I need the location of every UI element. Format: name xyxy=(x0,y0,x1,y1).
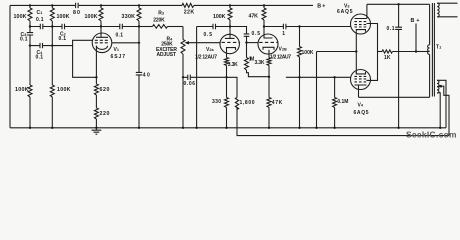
tube V2A plate xyxy=(225,27,235,39)
node junction x183 y77.3 xyxy=(182,76,184,78)
wire xyxy=(263,5,265,26)
tube V4 6AQ5 envelope xyxy=(351,70,371,90)
wire V3 screen lead xyxy=(367,24,378,52)
capacitor 0.5 plate bypass xyxy=(197,24,230,29)
wire xyxy=(226,66,228,78)
node junction x52.3 y26.5 xyxy=(51,25,53,27)
node junction plate V2B xyxy=(263,25,265,27)
tube V1 plate xyxy=(96,27,108,38)
tube V2B cathode xyxy=(263,47,274,50)
svg-text:6AQ5: 6AQ5 xyxy=(354,110,369,116)
svg-text:V4: V4 xyxy=(358,102,364,108)
wire feedback down xyxy=(237,108,449,136)
node junction rail x316.5 xyxy=(315,127,317,129)
svg-text:1M: 1M xyxy=(249,56,255,62)
wire V1 screen to bypass xyxy=(112,42,139,44)
tube V1 cathode xyxy=(96,46,107,50)
svg-text:R3: R3 xyxy=(158,10,164,16)
wire V2B cathode lead xyxy=(268,50,270,58)
capacitor 80 (series in top rail) xyxy=(76,3,79,8)
node junction plate V1 xyxy=(100,25,102,27)
capacitor C3 0.1 xyxy=(27,27,33,46)
wire V4 grid xyxy=(286,76,351,78)
svg-text:0.1: 0.1 xyxy=(59,36,67,42)
ground xyxy=(92,128,102,134)
resistor 100K V3 grid leak xyxy=(299,27,301,47)
capacitor 1 coupling to V3 xyxy=(264,24,300,29)
svg-text:80: 80 xyxy=(73,10,80,16)
node junction rail x96.4 xyxy=(95,127,97,129)
node junction rail x398.6 xyxy=(397,127,399,129)
wire xyxy=(51,97,53,128)
tube V2B plate xyxy=(264,27,273,39)
capacitor 0.5 interstage (vertical) xyxy=(244,34,250,43)
capacitor 40 screen bypass xyxy=(136,72,142,127)
resistor 1K screen feed xyxy=(378,51,383,53)
tube V4 cathode xyxy=(356,72,365,74)
node junction top x264 xyxy=(263,4,265,6)
resistor R3 220K (series y26) xyxy=(139,26,153,28)
svg-text:C1: C1 xyxy=(37,10,43,16)
wire xyxy=(51,5,53,45)
node junction B+ bus xyxy=(415,50,417,52)
svg-text:1,800: 1,800 xyxy=(240,100,255,106)
resistor 100K plate load V2A xyxy=(228,8,232,20)
node junction rail x196.6 xyxy=(195,127,197,129)
node junction rail x269 xyxy=(268,127,270,129)
wire secondary top leads xyxy=(437,3,457,17)
svg-text:22K: 22K xyxy=(184,10,195,16)
svg-text:100K: 100K xyxy=(15,87,29,93)
svg-text:3.3K: 3.3K xyxy=(228,62,238,68)
svg-text:1/2 12AU7: 1/2 12AU7 xyxy=(195,55,217,61)
transformer T1 core xyxy=(432,3,434,97)
node junction V2B grid xyxy=(245,41,247,43)
svg-text:V1: V1 xyxy=(114,47,119,53)
svg-text:3.3K: 3.3K xyxy=(255,60,265,66)
wire left border xyxy=(9,5,11,127)
tube V3 plate xyxy=(355,4,367,18)
resistor 330K xyxy=(137,8,141,21)
node junction x398.6 top xyxy=(397,3,399,5)
resistor 620 xyxy=(95,77,97,84)
node junction plate V2A xyxy=(229,25,231,27)
node V1 cathode junction xyxy=(95,76,97,78)
node junction V4 grid cross xyxy=(298,76,300,78)
node junction rail x139 xyxy=(138,127,140,129)
wire top rail right segment to B+ xyxy=(194,4,313,6)
svg-text:620: 620 xyxy=(100,87,110,93)
wire secondary tap to feedback xyxy=(440,86,449,135)
wire center tap xyxy=(416,51,430,53)
svg-text:6AQ5: 6AQ5 xyxy=(337,9,353,15)
resistor 47K cathode to ground xyxy=(268,77,270,98)
potentiometer R4 250K exciter adjust xyxy=(182,27,184,40)
resistor 3.3K V2A cathode xyxy=(225,58,229,66)
node junction x30 y45.6 xyxy=(29,44,31,46)
resistor 330 xyxy=(226,77,228,97)
svg-text:V2a: V2a xyxy=(206,47,214,53)
wire xyxy=(229,5,231,26)
resistor 220 xyxy=(94,108,98,119)
transformer secondary bottom winding xyxy=(437,80,439,93)
node junction top x101 xyxy=(100,4,102,6)
svg-text:0.1: 0.1 xyxy=(116,32,124,38)
node junction top x230 xyxy=(229,4,231,6)
resistor 100K lower-left 1 xyxy=(28,85,32,97)
node junction x30 y26.5 xyxy=(29,25,31,27)
node junction V4 grid leak xyxy=(333,76,335,78)
wire 1M bottom to cathode node xyxy=(247,70,270,77)
wire secondary bottom lower lead xyxy=(437,93,440,128)
wire feedback branch corner xyxy=(227,77,238,97)
node B+ lead xyxy=(415,24,417,52)
wire V3 plate to transformer xyxy=(367,3,430,5)
node junction screen x139 xyxy=(138,42,140,44)
capacitor C4 0.1 (series y45.6) xyxy=(30,43,52,48)
tube V1 6SJ7 envelope xyxy=(92,33,112,53)
svg-text:47K: 47K xyxy=(249,13,259,19)
wire V1 cathode lead xyxy=(95,46,97,78)
tube V3 cathode xyxy=(356,30,365,32)
svg-text:100K: 100K xyxy=(57,87,71,93)
svg-text:0.1: 0.1 xyxy=(20,37,28,43)
node junction cathode bus xyxy=(355,50,357,52)
tube V3 grid dashes xyxy=(354,22,366,27)
wire cathode ground bus xyxy=(317,52,357,128)
resistor 47K plate load V2B xyxy=(262,8,266,20)
node junction rail x30 xyxy=(29,127,31,129)
tube V4 grid dashes xyxy=(354,76,366,82)
resistor 3.3K V2B cathode xyxy=(267,58,271,66)
svg-text:0.5: 0.5 xyxy=(252,31,261,37)
resistor 0.1M V4 grid leak xyxy=(334,77,336,97)
wire bottom ground rail xyxy=(10,127,446,129)
svg-text:100K: 100K xyxy=(14,14,27,20)
svg-text:1: 1 xyxy=(282,31,285,37)
svg-text:330K: 330K xyxy=(122,14,136,20)
resistor 1800 feedback xyxy=(235,98,238,110)
wire xyxy=(29,97,31,128)
svg-text:100K: 100K xyxy=(302,50,314,56)
wire xyxy=(51,46,53,85)
tube V3 6AQ5 envelope xyxy=(351,14,371,34)
svg-text:1/2 12AU7: 1/2 12AU7 xyxy=(270,55,291,61)
tube V2B envelope xyxy=(258,34,278,54)
svg-text:B+: B+ xyxy=(411,18,420,24)
wire C4 node to V1 corner xyxy=(52,45,72,47)
node junction V2A cathode feedback xyxy=(225,76,227,78)
svg-text:0.06: 0.06 xyxy=(184,81,196,87)
wire xyxy=(95,95,97,108)
wire V3 grid xyxy=(300,26,352,28)
wire V2A cathode lead xyxy=(226,50,228,58)
capacitor 0.1 plate bypass xyxy=(395,4,402,128)
transformer T1 primary xyxy=(429,4,431,45)
capacitor 0.1 coupling (series y26.5) xyxy=(101,24,139,29)
svg-text:47K: 47K xyxy=(272,100,283,106)
wire V4 screen lead xyxy=(367,52,378,81)
resistor 100K lower-left 2 xyxy=(50,85,54,97)
capacitor C2 0.1 (series y26.5) xyxy=(52,24,101,29)
tube V4 plate xyxy=(355,85,367,97)
svg-text:330: 330 xyxy=(212,99,221,105)
node junction top x139 xyxy=(138,4,140,6)
node junction V3 grid xyxy=(298,25,300,27)
tube V2A cathode xyxy=(227,48,236,50)
node junction rail x183 xyxy=(182,127,184,129)
transformer secondary top winding xyxy=(437,3,439,17)
tube V2B grid dashes xyxy=(259,41,278,43)
wire V1 grid input xyxy=(73,40,97,77)
svg-text:1K: 1K xyxy=(384,55,391,61)
capacitor 0.06 xyxy=(183,75,227,80)
wire top rail left segment xyxy=(10,4,75,6)
wire top rail middle segment xyxy=(79,4,182,6)
svg-text:T1: T1 xyxy=(436,44,441,50)
wire plate segment to coupling corner xyxy=(230,27,247,34)
svg-text:0.1: 0.1 xyxy=(387,26,395,32)
svg-text:100K: 100K xyxy=(57,14,70,20)
wiper arrow R4 xyxy=(189,42,221,44)
node junction rail x299.5 xyxy=(298,127,300,129)
wire to V2B grid xyxy=(247,42,259,44)
svg-text:100K: 100K xyxy=(213,14,226,20)
node junction rail x334.6 xyxy=(333,127,335,129)
svg-text:0.5: 0.5 xyxy=(204,32,213,38)
resistor 1M xyxy=(246,43,248,58)
node junction top x52.3 xyxy=(51,4,53,6)
wire secondary bottom top lead xyxy=(437,80,446,128)
wire V4 plate to transformer xyxy=(359,96,430,98)
tube V1 grid dashes xyxy=(95,40,108,43)
node junction x139 y26.5 xyxy=(138,25,140,27)
node junction V2B cathode xyxy=(268,76,270,78)
wire xyxy=(268,66,270,77)
svg-text:6SJ7: 6SJ7 xyxy=(111,54,126,60)
svg-text:0.1M: 0.1M xyxy=(337,99,348,105)
svg-text:220K: 220K xyxy=(153,17,165,23)
wire xyxy=(95,119,97,128)
wire xyxy=(29,5,31,26)
wire shared cathode line V3 V4 xyxy=(355,32,357,73)
svg-text:220: 220 xyxy=(100,111,110,117)
resistor 22K (series in top rail) xyxy=(182,3,194,7)
resistor 100K input 2 xyxy=(50,8,54,21)
node junction top x30 xyxy=(29,4,31,6)
node junction x52.3 y45.6 xyxy=(51,44,53,46)
tube V2A envelope xyxy=(220,34,239,53)
tap arrow xyxy=(437,85,441,88)
svg-text:B+: B+ xyxy=(317,4,325,10)
svg-text:0.1: 0.1 xyxy=(36,17,44,23)
wire xyxy=(29,46,31,85)
svg-text:40: 40 xyxy=(143,72,150,78)
tube V2A grid dashes xyxy=(222,41,241,43)
wire xyxy=(138,27,140,73)
wire xyxy=(138,5,140,26)
svg-text:100K: 100K xyxy=(85,14,98,20)
node junction rail x226.5 xyxy=(225,127,227,129)
node junction rail x52.3 xyxy=(51,127,53,129)
svg-text:ADJUST: ADJUST xyxy=(157,52,177,58)
svg-text:SeekIC.com: SeekIC.com xyxy=(406,129,457,139)
resistor 100K input 1 xyxy=(28,8,32,21)
wire xyxy=(100,5,102,26)
wire ground return x196.6 xyxy=(196,27,198,128)
svg-text:V2B: V2B xyxy=(279,46,287,52)
resistor 100K plate load V1 xyxy=(99,8,103,21)
svg-text:0.1: 0.1 xyxy=(36,55,44,61)
capacitor C1 0.1 (series y26.5) xyxy=(30,24,52,29)
node junction rail x440 xyxy=(439,127,441,129)
